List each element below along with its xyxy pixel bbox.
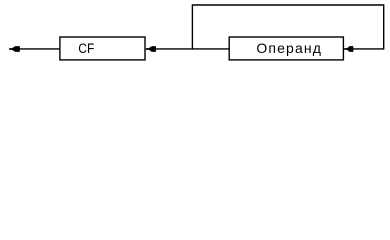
wire: carry-out line left of CF [17, 48, 59, 50]
svg-text:Операнд: Операнд [256, 40, 322, 56]
label: CF [78, 40, 94, 56]
arrow: arrowhead into CF right side [146, 46, 156, 52]
wire: feedback loop left vertical [191, 4, 193, 49]
arrow: leftmost arrowhead pointing left [9, 46, 20, 52]
wire: feedback loop top [192, 4, 383, 6]
wire: operand MSB to CF (with junction from loop) [153, 48, 229, 50]
wire: loop into operand LSB [351, 48, 384, 50]
wire: feedback loop right vertical [383, 4, 385, 49]
svg-text:CF: CF [78, 40, 94, 56]
box: CF carry flag register [60, 37, 145, 60]
arrow: arrowhead into Operand right side [344, 46, 353, 52]
box: Operand register [229, 37, 343, 60]
label: Операнд [256, 40, 322, 56]
